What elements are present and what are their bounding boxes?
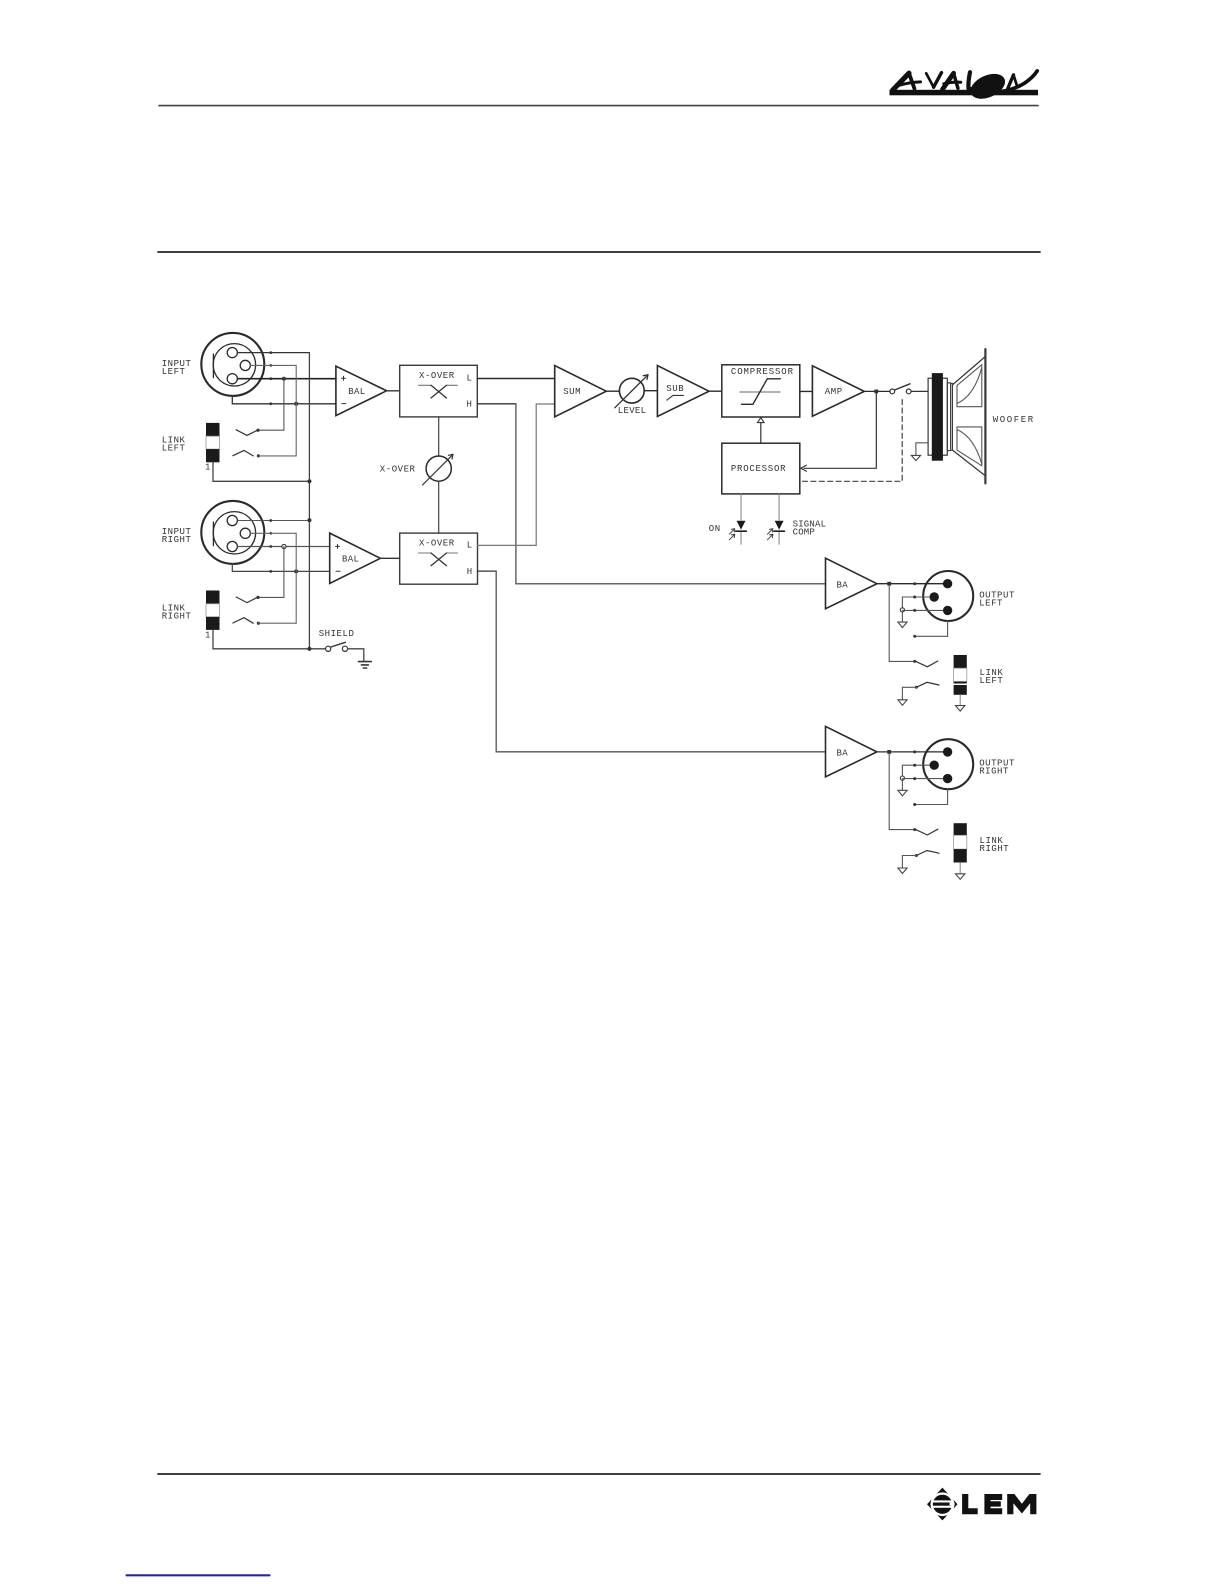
- junction open: [900, 776, 904, 780]
- wire U7 out to XLR: [877, 751, 943, 753]
- ground J7: [898, 790, 907, 796]
- wire PROCESSOR to LED ON: [740, 494, 742, 544]
- wire J6 stub: [959, 695, 961, 706]
- wire vertical switch drop: [258, 379, 284, 431]
- svg-text:LEFT: LEFT: [162, 443, 186, 453]
- connector J8 link right jack: [954, 823, 967, 862]
- wire U2 out: [380, 557, 399, 559]
- wire X-OVER1 H out to BA left: [477, 403, 516, 405]
- LINK RIGHT label: [162, 603, 192, 621]
- svg-text:COMPRESSOR: COMPRESSOR: [731, 367, 794, 377]
- node dot: [915, 686, 918, 689]
- junction: [887, 750, 891, 754]
- wire X-OVER2 H out to BA right: [478, 570, 497, 572]
- junction open: [282, 544, 286, 548]
- wire AMP sense to PROCESSOR: [804, 393, 876, 468]
- wire LEVEL to SUB: [644, 390, 657, 392]
- svg-text:BAL: BAL: [348, 387, 365, 397]
- switch S5a: [916, 661, 938, 667]
- switch S2b: [233, 618, 253, 624]
- junction: [294, 569, 298, 573]
- node dot: [269, 570, 272, 573]
- node dot: [269, 351, 272, 354]
- arrowhead up open: [758, 418, 765, 423]
- ground J8: [956, 874, 965, 880]
- wire pot to X-OVER2: [438, 481, 440, 533]
- OUTPUT RIGHT label: [979, 759, 1015, 777]
- wire X-OVER1 L out to SUM: [477, 378, 554, 380]
- svg-text:BA: BA: [837, 749, 849, 759]
- potentiometer LEVEL: [615, 375, 648, 416]
- wire X-OVER1 to pot: [438, 417, 440, 456]
- wire PROCESSOR to LED SIGNAL COMP: [778, 494, 780, 544]
- block X-OVER 2: [400, 533, 478, 584]
- connector J7 output right XLR: [923, 739, 973, 789]
- ground S6b: [898, 868, 907, 874]
- section rule: [158, 251, 1040, 253]
- LED ON: [729, 521, 746, 540]
- svg-text:RIGHT: RIGHT: [980, 844, 1010, 854]
- switch S1b: [233, 450, 253, 456]
- wire J3 pin top to shield bus: [238, 520, 310, 522]
- junction: [294, 402, 298, 406]
- ground woofer: [911, 455, 920, 460]
- wire J3 shell to BAL-: [232, 564, 329, 572]
- svg-text:L: L: [467, 374, 473, 384]
- connector J1 input left XLR: [201, 333, 264, 396]
- op-amp U5 AMP: [812, 366, 864, 416]
- node dot: [269, 364, 272, 367]
- junction open: [900, 608, 904, 612]
- footer blue line: [127, 1574, 270, 1576]
- op-amp U6 BA output left: [826, 558, 877, 609]
- node dot: [913, 609, 916, 612]
- LINK LEFT label: [162, 435, 186, 453]
- wire U1 out: [387, 390, 400, 392]
- SIGNAL COMP label: [793, 519, 827, 537]
- node dot: [269, 545, 272, 548]
- wire vertical link-left return: [295, 365, 297, 456]
- ground J5: [898, 622, 907, 628]
- node dot: [913, 750, 916, 753]
- switch S5b: [916, 682, 939, 687]
- wire AMP out to switch: [864, 390, 890, 392]
- node dot: [913, 803, 916, 806]
- node dot: [257, 454, 260, 457]
- svg-text:LEFT: LEFT: [980, 676, 1004, 686]
- svg-text:PROCESSOR: PROCESSOR: [731, 464, 786, 474]
- svg-text:SHIELD: SHIELD: [319, 629, 355, 639]
- op-amp U7 BA output right: [826, 726, 877, 777]
- op-amp U3 SUM: [555, 366, 607, 417]
- wire link right drop: [889, 754, 915, 830]
- node dot: [269, 519, 272, 522]
- ground J6: [956, 706, 965, 712]
- svg-text:1: 1: [205, 463, 211, 473]
- wire J3 pin mid: [251, 532, 297, 534]
- wire link left drop: [889, 586, 915, 662]
- wire S6b to ground: [902, 856, 916, 868]
- switch S6a: [916, 829, 938, 835]
- svg-text:X-OVER: X-OVER: [419, 371, 455, 381]
- op-amp U2 BAL right: [330, 533, 381, 583]
- wire SUM out: [606, 390, 619, 392]
- svg-text:L: L: [467, 541, 473, 551]
- node dot: [913, 828, 916, 831]
- svg-text:RIGHT: RIGHT: [162, 611, 192, 621]
- wire J1 pin top to shield bus: [238, 352, 310, 354]
- LED SIGNAL COMP: [767, 521, 784, 540]
- wire shield to earth: [348, 649, 364, 661]
- junction: [887, 582, 891, 586]
- wire J5 shell stub: [915, 621, 948, 636]
- header rule: [159, 105, 1038, 107]
- connector J2 link left jack: [206, 423, 220, 462]
- switch S6b: [916, 851, 939, 856]
- wire J4 sleeve to shield bus: [213, 630, 326, 649]
- wire SUB to COMPRESSOR: [709, 390, 722, 392]
- ground S5b: [898, 700, 907, 706]
- svg-text:X-OVER: X-OVER: [419, 539, 455, 549]
- svg-text:RIGHT: RIGHT: [979, 767, 1009, 777]
- wire J7 pin2 to ground: [902, 765, 929, 790]
- svg-text:LEVEL: LEVEL: [618, 406, 647, 416]
- svg-text:H: H: [467, 567, 473, 577]
- wire X-OVER2 L up to SUM: [536, 404, 555, 545]
- svg-text:BAL: BAL: [342, 554, 359, 564]
- wire J5 pin3: [902, 609, 943, 611]
- wire PROCESSOR to COMPRESSOR control: [760, 423, 762, 444]
- wire J2 sleeve to shield bus: [213, 462, 309, 481]
- INPUT LEFT label: [162, 359, 192, 377]
- earth ground: [359, 662, 372, 668]
- svg-text:SUM: SUM: [563, 387, 581, 397]
- node dot: [913, 777, 916, 780]
- AVALON logo: [890, 69, 1039, 104]
- dashed feedback wire: [803, 396, 903, 481]
- junction: [874, 390, 878, 394]
- node dot: [257, 622, 260, 625]
- LINK LEFT output label: [980, 668, 1004, 686]
- wire COMPRESSOR to AMP: [800, 390, 813, 392]
- footer rule: [158, 1473, 1040, 1475]
- svg-text:LEFT: LEFT: [162, 367, 186, 377]
- wire J7 pin3: [902, 778, 943, 780]
- wire S1b to return: [258, 455, 296, 457]
- svg-text:H: H: [467, 400, 473, 410]
- wire X-OVER2 L out: [478, 544, 537, 546]
- svg-text:X-OVER: X-OVER: [380, 465, 416, 475]
- wire S2b to return: [258, 622, 296, 624]
- connector J4 link right jack: [206, 591, 220, 630]
- op-amp U1 BAL left: [336, 366, 387, 416]
- junction: [282, 377, 286, 381]
- switch S3 shield lift: [326, 642, 348, 651]
- wire U6 out to XLR: [877, 583, 943, 585]
- connector J3 input right XLR: [201, 501, 264, 564]
- svg-text:SUB: SUB: [666, 384, 684, 394]
- node dot: [269, 377, 272, 380]
- LEM logo: [927, 1488, 1036, 1521]
- svg-text:ON: ON: [709, 524, 721, 534]
- wire switch to woofer: [911, 390, 928, 392]
- switch S1a: [236, 430, 258, 436]
- svg-text:AMP: AMP: [825, 387, 843, 397]
- block PROCESSOR: [722, 443, 800, 494]
- arrowhead into processor: [801, 465, 807, 471]
- node dot: [913, 764, 916, 767]
- svg-text:WOOFER: WOOFER: [993, 415, 1035, 425]
- wire J5 pin2 to ground: [902, 597, 929, 622]
- svg-text:LEFT: LEFT: [979, 598, 1003, 608]
- wire shield bus vertical: [308, 353, 310, 649]
- wire J8 stub: [959, 863, 961, 874]
- junction: [307, 479, 311, 483]
- node dot: [256, 596, 259, 599]
- wire S5b to ground: [902, 687, 916, 699]
- node dot: [256, 429, 259, 432]
- potentiometer X-OVER freq: [380, 454, 453, 485]
- INPUT RIGHT label: [162, 527, 192, 545]
- connector J6 link left jack: [954, 655, 967, 695]
- svg-text:1: 1: [205, 631, 211, 641]
- switch S4 speaker: [890, 384, 911, 394]
- block X-OVER 1: [400, 365, 478, 417]
- block COMPRESSOR: [722, 365, 800, 417]
- node dot: [913, 596, 916, 599]
- wire J1 pin mid: [251, 364, 297, 366]
- node dot: [269, 532, 272, 535]
- node dot: [269, 402, 272, 405]
- node dot: [913, 635, 916, 638]
- LINK RIGHT output label: [980, 836, 1010, 854]
- junction: [307, 647, 311, 651]
- wire J1 shell to BAL-: [232, 396, 336, 404]
- node dot: [915, 854, 918, 857]
- wire J3 pin bottom to BAL+: [238, 546, 330, 548]
- OUTPUT LEFT label: [979, 590, 1015, 608]
- wire J7 shell stub: [915, 789, 948, 804]
- op-amp U4 SUB: [657, 366, 709, 417]
- wire vertical link-right return: [295, 533, 297, 623]
- wire vertical switch drop right: [258, 547, 284, 598]
- svg-text:RIGHT: RIGHT: [162, 535, 192, 545]
- node dot: [913, 582, 916, 585]
- switch S2a: [236, 597, 258, 603]
- node dot: [913, 660, 916, 663]
- wire woofer to ground: [916, 443, 928, 455]
- woofer LS1: [928, 349, 985, 483]
- svg-text:BA: BA: [837, 580, 849, 590]
- svg-text:COMP: COMP: [793, 527, 815, 537]
- connector J5 output left XLR: [923, 571, 973, 621]
- junction: [307, 518, 311, 522]
- wire J1 pin bottom to BAL+: [238, 378, 336, 380]
